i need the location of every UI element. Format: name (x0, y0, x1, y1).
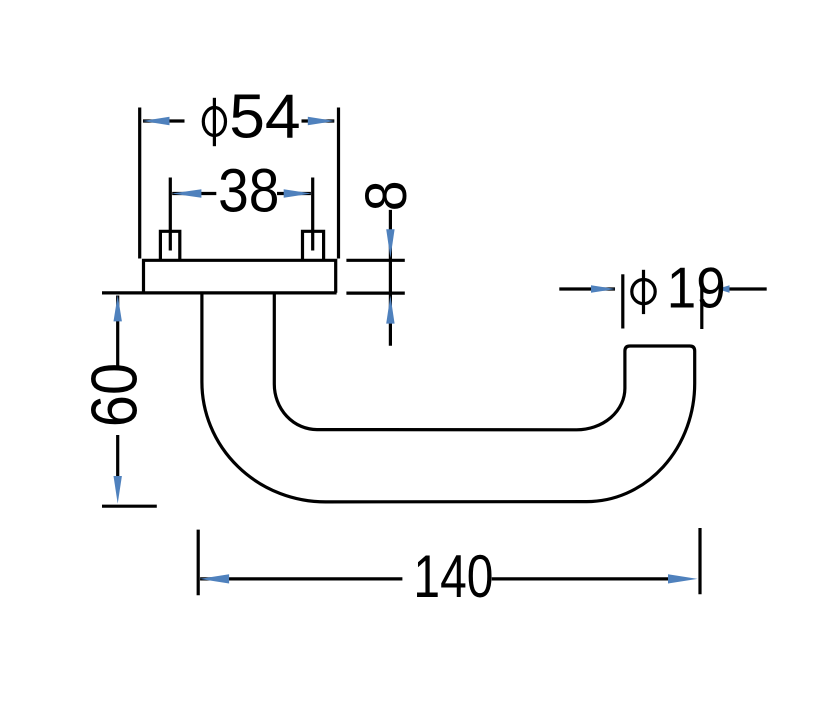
dim 140 ext left (197, 530, 200, 596)
right lug center line (311, 178, 314, 251)
arrow phi54 right (308, 117, 335, 125)
arrow 140 right (668, 574, 698, 583)
svg-text:140: 140 (413, 541, 493, 610)
left lug center line (169, 178, 172, 251)
handle outline (202, 293, 695, 502)
svg-text:38: 38 (218, 157, 279, 226)
arrow 60 bottom (down) (114, 476, 122, 504)
dim 8 tick top (346, 259, 404, 262)
arrow phi19 right (points left) (717, 285, 729, 293)
dim phi54 line left (143, 119, 185, 122)
arrow 8 top (down) (386, 229, 394, 258)
arrow 8 bottom (up) (386, 296, 394, 324)
arrow 140 left (200, 574, 230, 583)
arrow 38 right (284, 189, 312, 197)
dim phi19 line left (559, 287, 615, 290)
phi symbol of phi19 (632, 280, 655, 304)
arrow phi19 left (points right) (591, 285, 616, 293)
dim 140 ext right (698, 528, 701, 594)
dim 60 line bottom (116, 435, 119, 484)
dim phi19 line right (725, 287, 767, 290)
dim phi54 line right (302, 119, 335, 122)
dim phi54 ext left (138, 108, 141, 259)
dim 60 bottom tick (102, 505, 157, 508)
dim phi54 ext right (337, 108, 340, 259)
arrow 60 top (up) (114, 295, 122, 321)
dim 38 line right (277, 192, 311, 195)
arrow phi54 left (143, 117, 170, 125)
dim phi19 ext left (621, 274, 624, 328)
svg-text:54: 54 (229, 83, 300, 152)
arrow 38 left (172, 189, 202, 197)
phi symbol of phi54 (203, 108, 225, 136)
dim 38 line left (172, 192, 216, 195)
svg-text:19: 19 (667, 255, 726, 320)
dim 140 line right (492, 577, 670, 580)
plate (rose side view) (144, 260, 336, 292)
dim 140 line left (200, 577, 402, 580)
dim 8 vline (389, 210, 392, 346)
right screw lug (303, 231, 324, 259)
svg-text:60: 60 (78, 363, 151, 427)
dim phi19 ext right (700, 274, 703, 329)
left screw lug (160, 231, 179, 259)
svg-text:8: 8 (355, 180, 420, 211)
dim 60 line top (116, 296, 119, 367)
door surface line (102, 291, 337, 294)
dim 8 tick bottom (346, 292, 404, 295)
